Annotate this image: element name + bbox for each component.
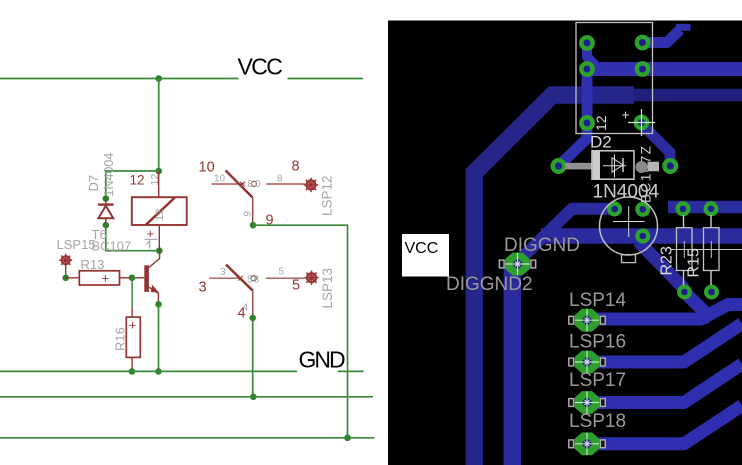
svg-text:4: 4 xyxy=(238,306,246,322)
svg-text:8: 8 xyxy=(254,275,260,286)
switch contact S1 (pins 10/8/9) xyxy=(212,170,306,225)
svg-text:D2: D2 xyxy=(590,133,612,152)
trace LSP18 to right edge xyxy=(587,406,742,444)
svg-text:8: 8 xyxy=(277,174,283,185)
pad LSP16 (octagon) xyxy=(569,351,605,374)
pad DIGGND2 (octagon) xyxy=(499,253,535,276)
svg-text:5: 5 xyxy=(247,275,253,286)
switch contact S2 (pins 3/5/4) xyxy=(209,265,304,318)
silkscreen diode D2 body xyxy=(565,163,592,170)
svg-text:DIGGND2: DIGGND2 xyxy=(446,274,533,295)
pad transistor emitter xyxy=(637,231,648,242)
node relay bottom junction xyxy=(156,247,163,254)
resistor R13 xyxy=(66,271,132,285)
solder pad LSP13 (star) xyxy=(304,271,318,285)
pad transistor base xyxy=(609,204,620,215)
pad relay P3 xyxy=(581,63,592,74)
silkscreen transistor circle xyxy=(600,197,658,255)
pad LSP14 (octagon) xyxy=(569,309,605,332)
pad LSP17 (octagon) xyxy=(569,391,605,414)
node relay/diode branch xyxy=(155,168,162,175)
wire GND bus 1 xyxy=(0,370,364,372)
pad relay P6 xyxy=(636,117,647,128)
node R16 to GND xyxy=(129,368,136,375)
origin cross P6 xyxy=(628,109,655,136)
wire diode bottom to relay bottom xyxy=(106,225,160,251)
silkscreen resistor R23 outline xyxy=(683,215,685,285)
svg-text:3: 3 xyxy=(199,280,207,296)
trace LSP17 to right edge xyxy=(587,364,742,403)
wire S1 output to right bus xyxy=(253,225,348,438)
pad R15 top xyxy=(706,203,717,214)
trace from GND main down to diode right pad xyxy=(643,125,671,166)
wire VCC to relay xyxy=(158,79,160,172)
svg-text:LSP15: LSP15 xyxy=(57,237,96,252)
wire GND bus 3 xyxy=(0,437,375,439)
svg-text:R13: R13 xyxy=(81,257,105,272)
relay coil K1 xyxy=(132,171,187,251)
node emitter wire to GND xyxy=(155,368,162,375)
svg-text:+: + xyxy=(102,271,110,286)
board background xyxy=(388,21,742,465)
svg-text:9: 9 xyxy=(243,211,254,217)
wire branch to diode xyxy=(106,171,159,199)
origin cross transistor xyxy=(613,206,645,237)
pad relay P4 xyxy=(637,63,648,74)
svg-text:10: 10 xyxy=(199,160,215,176)
pad diode D2 right xyxy=(665,160,677,172)
svg-text:8: 8 xyxy=(292,159,300,175)
node diode top xyxy=(103,195,110,202)
node right bus on bus 3 xyxy=(344,435,351,442)
pad relay P1 xyxy=(581,37,592,48)
trace LSP16 to right edge xyxy=(587,324,742,363)
resistor R16 xyxy=(126,307,140,371)
wire emitter to GND xyxy=(158,304,160,371)
svg-text:LSP14: LSP14 xyxy=(569,290,626,311)
svg-text:+: + xyxy=(129,318,137,333)
node R13 left xyxy=(62,275,69,282)
node emitter junction xyxy=(155,301,162,308)
svg-text:LSP12: LSP12 xyxy=(320,175,335,216)
trace horizontal through R23/R15 top pads xyxy=(668,201,742,214)
pad R23 top xyxy=(678,203,689,214)
svg-text:0: 0 xyxy=(255,179,261,190)
svg-text:VCC: VCC xyxy=(238,53,283,79)
svg-text:1N4004: 1N4004 xyxy=(102,153,116,197)
svg-text:LSP17: LSP17 xyxy=(569,370,626,391)
trace relay pad 2 stub (top right) xyxy=(643,30,681,43)
pad diode D2 left xyxy=(553,160,565,172)
svg-text:R15: R15 xyxy=(686,248,703,277)
trace R23 bottom pad to LSP14 trace xyxy=(685,292,713,320)
svg-text:R23: R23 xyxy=(659,246,676,275)
svg-text:10: 10 xyxy=(214,174,226,185)
svg-text:5: 5 xyxy=(279,267,285,278)
node switch S1 output xyxy=(250,222,257,229)
svg-text:VCC: VCC xyxy=(405,240,439,257)
pad R15 bottom xyxy=(706,287,717,298)
trace diag to R23 bottom pad xyxy=(638,241,685,289)
svg-text:3: 3 xyxy=(220,267,226,278)
svg-text:D7: D7 xyxy=(86,175,101,192)
trace relay pad3 down to pad5 and diode left pad xyxy=(559,69,588,166)
svg-text:12: 12 xyxy=(154,209,166,221)
pad relay P2 xyxy=(637,37,648,48)
transistor T6 xyxy=(132,251,160,305)
node diode bottom xyxy=(103,222,110,229)
diode D7 xyxy=(98,199,114,226)
svg-text:12: 12 xyxy=(149,174,161,186)
svg-text:8: 8 xyxy=(248,179,254,190)
silkscreen relay outline xyxy=(576,23,653,134)
solder pad LSP12 (star) xyxy=(304,178,318,192)
svg-text:5: 5 xyxy=(292,278,300,294)
pad LSP18 (octagon) xyxy=(569,432,605,455)
silkscreen cross line through resistors xyxy=(670,241,742,258)
trace DIGGND2 to transistor base pad xyxy=(516,209,615,264)
svg-text:9: 9 xyxy=(266,213,274,229)
pad relay P5 xyxy=(581,117,592,128)
silkscreen resistor R15 outline xyxy=(710,215,712,285)
svg-text:LSP16: LSP16 xyxy=(569,332,626,353)
svg-text:GND: GND xyxy=(299,347,346,373)
svg-text:BC107: BC107 xyxy=(92,239,132,254)
pad transistor collector xyxy=(637,204,648,215)
pad R23 bottom xyxy=(679,287,690,298)
wire base junction down to R16 xyxy=(131,278,133,307)
node VCC junction xyxy=(155,75,162,82)
net label VCC white box xyxy=(402,234,449,277)
wire S2 output down xyxy=(252,318,254,397)
wire VCC net horizontal xyxy=(0,78,363,80)
trace LSP14 to right edge xyxy=(587,305,742,320)
trace relay row2 to right edge xyxy=(587,62,742,76)
trace relay pad1 curve to row2 xyxy=(587,43,599,69)
svg-text:12: 12 xyxy=(130,172,145,187)
pin name 1 (gray) xyxy=(145,239,158,248)
svg-text:LSP13: LSP13 xyxy=(320,268,335,309)
svg-text:DIGGND: DIGGND xyxy=(504,235,580,256)
trace vertical from DIGGND2 pad down xyxy=(504,264,522,465)
svg-text:+: + xyxy=(622,107,630,123)
trace GND main (dark): horizontal, elbow, long left vertical xyxy=(630,89,742,102)
node switch S2 output xyxy=(249,315,256,322)
svg-text:R16: R16 xyxy=(113,327,128,351)
solder pad LSP15 (star) xyxy=(59,254,72,275)
wire GND bus 2 xyxy=(0,396,373,398)
svg-text:1N4004: 1N4004 xyxy=(593,182,660,203)
svg-text:LSP18: LSP18 xyxy=(569,411,626,432)
trace horizontal through emitter pad to right edge xyxy=(541,228,742,244)
svg-text:12: 12 xyxy=(593,115,609,131)
node base junction xyxy=(129,275,136,282)
node S2 wire on bus 2 xyxy=(250,394,257,401)
